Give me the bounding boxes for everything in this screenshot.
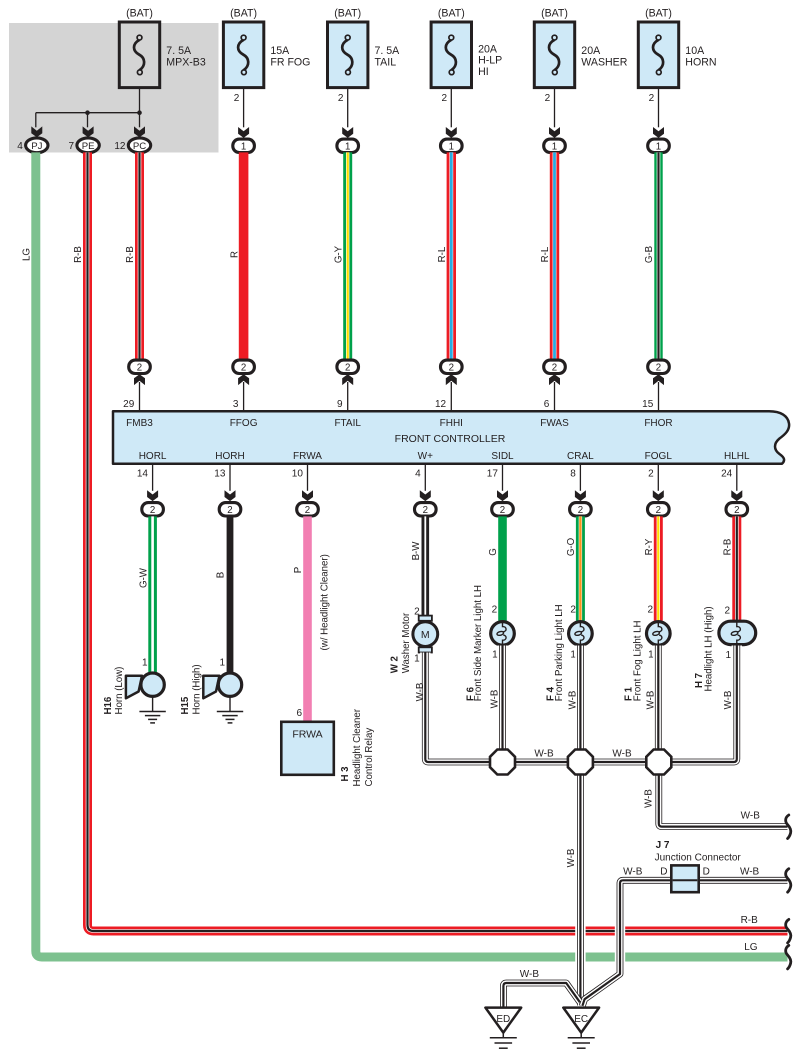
connector arrow	[446, 127, 457, 138]
connector arrow	[420, 490, 431, 501]
label H15 Horn (High)	[180, 664, 202, 714]
connector pin 1	[648, 139, 670, 152]
connector pin 2	[233, 360, 255, 373]
svg-text:(w/ Headlight Cleaner): (w/ Headlight Cleaner)	[320, 554, 331, 650]
svg-text:G-W: G-W	[138, 567, 149, 588]
wire W-B from junction 3 to right	[659, 774, 788, 826]
svg-text:(BAT): (BAT)	[334, 7, 361, 19]
label B-W	[411, 541, 422, 561]
label W-B	[534, 749, 554, 760]
svg-text:R-B: R-B	[125, 246, 136, 263]
svg-text:7. 5A: 7. 5A	[375, 45, 401, 57]
connector pin 2	[570, 503, 592, 516]
svg-text:PC: PC	[133, 141, 146, 152]
svg-text:2: 2	[648, 469, 654, 480]
lamp F6 Front Side Marker Light LH	[491, 622, 515, 646]
wire: controller pin 4 stem	[415, 464, 425, 491]
svg-text:4: 4	[415, 469, 421, 480]
svg-text:2: 2	[649, 93, 655, 104]
connector PJ	[17, 138, 48, 153]
svg-text:Washer Motor: Washer Motor	[401, 612, 412, 673]
svg-text:2: 2	[338, 93, 344, 104]
label W-B	[740, 867, 760, 878]
junction dot at PE branch	[85, 110, 90, 115]
label H3	[340, 708, 375, 786]
label R-B	[125, 246, 136, 263]
svg-text:1: 1	[219, 657, 225, 668]
label W2 Washer Motor	[389, 612, 412, 673]
connector pin 2	[648, 503, 670, 516]
fuse 7.5A MPX-B3	[119, 7, 206, 87]
svg-text:TAIL: TAIL	[375, 56, 397, 68]
label LG	[22, 248, 33, 261]
svg-text:R-B: R-B	[741, 915, 759, 926]
wire W-B from J7 to ground EC	[582, 880, 671, 1006]
svg-text:2: 2	[150, 505, 155, 516]
svg-text:24: 24	[721, 469, 733, 480]
connector pin 2	[544, 360, 566, 373]
pin label 2	[647, 605, 653, 616]
connector arrow	[302, 490, 313, 501]
wire: junction block internal bus	[36, 88, 140, 128]
svg-text:FRONT CONTROLLER: FRONT CONTROLLER	[395, 433, 506, 445]
svg-text:FMB3: FMB3	[126, 418, 153, 429]
svg-text:W-B: W-B	[520, 969, 540, 980]
svg-text:W-B: W-B	[415, 683, 426, 702]
label W-B	[723, 691, 734, 710]
svg-text:R-Y: R-Y	[644, 538, 655, 555]
wire: fuse output	[234, 88, 244, 128]
ground ED	[485, 1008, 521, 1049]
svg-text:R-B: R-B	[73, 246, 84, 263]
wire W-B from washer motor to junction	[425, 653, 490, 763]
svg-text:R-L: R-L	[540, 246, 551, 262]
svg-text:P: P	[293, 567, 304, 573]
label G-O	[566, 537, 577, 556]
wire R-B from HLHL to H7	[732, 516, 741, 620]
connector pin 2	[142, 503, 164, 516]
wire W-B from junction 2 to ground EC	[577, 774, 584, 1005]
wire R-B from PE to bottom right	[88, 152, 788, 931]
wire: controller pin 9 stem	[337, 382, 348, 412]
svg-text:Front Side Marker Light LH: Front Side Marker Light LH	[473, 585, 484, 701]
connector arrow	[83, 126, 94, 137]
svg-text:2: 2	[345, 362, 350, 373]
wire R-L from WASHER fuse to FWAS	[550, 152, 559, 359]
svg-text:8: 8	[570, 469, 576, 480]
connector arrow	[497, 490, 508, 501]
svg-text:HI: HI	[478, 66, 489, 78]
label H16 Horn (Low)	[103, 667, 125, 715]
svg-text:W-B: W-B	[645, 691, 656, 710]
pin label D	[703, 867, 710, 878]
svg-text:2: 2	[656, 505, 661, 516]
svg-text:17: 17	[487, 469, 499, 480]
svg-text:G-B: G-B	[644, 246, 655, 263]
svg-text:Horn (High): Horn (High)	[192, 664, 203, 714]
svg-text:Front Fog Light LH: Front Fog Light LH	[632, 621, 643, 702]
pin label 1	[219, 657, 225, 668]
pin label 6	[296, 708, 302, 719]
svg-text:7: 7	[69, 141, 75, 152]
label G	[488, 548, 499, 556]
junction node 2	[568, 750, 593, 775]
svg-text:ED: ED	[496, 1014, 510, 1025]
connector arrow	[342, 127, 353, 138]
svg-text:H-LP: H-LP	[478, 55, 502, 67]
wire P from FRWA to relay H3	[303, 516, 312, 722]
svg-text:2: 2	[656, 362, 661, 373]
wire R-Y from FOGL to F1	[654, 516, 663, 620]
connector arrow	[549, 127, 560, 138]
break R-B continuation	[786, 919, 791, 943]
wire: fuse output	[545, 88, 555, 128]
wire W-B between junctions 2-3	[593, 759, 647, 766]
wire B from HORH to horn H15	[227, 516, 234, 672]
svg-text:13: 13	[214, 469, 226, 480]
label R-B	[723, 539, 734, 556]
svg-text:FWAS: FWAS	[540, 418, 569, 429]
connector arrow	[238, 374, 249, 385]
label R-L	[540, 246, 551, 262]
wire G from SIDL to F6	[498, 516, 507, 620]
connector pin 2	[219, 503, 241, 516]
svg-text:W+: W+	[418, 451, 433, 462]
label B	[216, 572, 227, 578]
svg-text:Headlight LH (High): Headlight LH (High)	[704, 606, 715, 691]
svg-text:10A: 10A	[685, 45, 705, 57]
svg-text:1: 1	[726, 650, 732, 661]
svg-text:W-B: W-B	[623, 867, 643, 878]
connector arrow	[575, 490, 586, 501]
svg-text:W-B: W-B	[612, 749, 632, 760]
wire W-B from F1 to junction	[655, 646, 662, 751]
svg-text:H 3: H 3	[340, 766, 351, 782]
FRONT CONTROLLER	[113, 411, 789, 463]
svg-text:2: 2	[492, 605, 498, 616]
svg-text:(BAT): (BAT)	[645, 7, 672, 19]
svg-text:(BAT): (BAT)	[230, 7, 257, 19]
svg-text:14: 14	[137, 469, 149, 480]
svg-text:HORL: HORL	[139, 451, 167, 462]
junction node 3	[646, 750, 671, 775]
wire W-B from J7 to right	[699, 877, 788, 884]
svg-text:(BAT): (BAT)	[541, 7, 568, 19]
svg-text:2: 2	[449, 362, 454, 373]
connector pin 1	[233, 139, 255, 152]
svg-text:1: 1	[552, 141, 557, 152]
wire W-B from F6 to junction	[499, 646, 506, 751]
svg-text:R-B: R-B	[723, 539, 734, 556]
svg-text:7. 5A: 7. 5A	[166, 45, 192, 57]
label W-B	[490, 690, 501, 709]
wire LG from PJ to bottom right	[36, 152, 788, 957]
svg-text:LG: LG	[22, 248, 33, 261]
svg-text:Front Parking Light LH: Front Parking Light LH	[554, 604, 565, 701]
svg-text:MPX-B3: MPX-B3	[166, 56, 206, 68]
pin label 1	[492, 650, 498, 661]
svg-text:2: 2	[552, 362, 557, 373]
break W-B continuation	[786, 815, 791, 839]
svg-text:Headlight Cleaner: Headlight Cleaner	[352, 708, 363, 786]
connector arrow	[134, 126, 145, 137]
pin label 2	[414, 607, 420, 618]
wire: fuse output	[649, 88, 659, 128]
svg-text:B: B	[216, 572, 227, 578]
wire R-L from H-LP HI fuse to FHHI	[447, 152, 456, 359]
wire W-B branch to ground ED	[503, 983, 579, 1007]
label R-Y	[644, 538, 655, 555]
wire W-B from H7 to junction	[672, 646, 737, 763]
svg-text:Junction Connector: Junction Connector	[655, 853, 742, 864]
wire: controller pin 24 stem	[721, 464, 737, 491]
break W-B continuation	[786, 869, 791, 893]
wire G-Y from TAIL fuse to FTAIL	[343, 152, 352, 359]
svg-text:2: 2	[423, 505, 428, 516]
svg-text:2: 2	[647, 605, 653, 616]
svg-text:FHOR: FHOR	[644, 418, 672, 429]
fuse 15A FR FOG	[223, 7, 310, 87]
svg-text:LG: LG	[744, 942, 758, 953]
connector pin 2	[726, 503, 748, 516]
svg-text:PJ: PJ	[31, 141, 42, 152]
svg-text:HLHL: HLHL	[724, 451, 750, 462]
label W-B	[645, 691, 656, 710]
svg-text:Control Relay: Control Relay	[364, 728, 375, 787]
connector arrow	[549, 374, 560, 385]
label G-B	[644, 246, 655, 263]
svg-text:R: R	[229, 251, 240, 258]
svg-text:1: 1	[656, 141, 661, 152]
pin label D	[660, 867, 667, 878]
pin label 1	[414, 653, 420, 664]
svg-text:D: D	[703, 867, 710, 878]
svg-text:PE: PE	[82, 141, 95, 152]
pin label 2	[725, 606, 731, 617]
label (w/ Headlight Cleaner)	[320, 554, 331, 650]
svg-text:2: 2	[734, 505, 739, 516]
connector pin 2	[648, 360, 670, 373]
washer motor W2	[413, 616, 438, 653]
svg-text:FHHI: FHHI	[440, 418, 463, 429]
svg-text:W-B: W-B	[566, 849, 577, 868]
pin label 2	[492, 605, 498, 616]
svg-text:4: 4	[17, 141, 23, 152]
connector arrow	[238, 127, 249, 138]
svg-text:FRWA: FRWA	[292, 728, 322, 740]
label F1 Front Fog Light LH	[624, 621, 644, 702]
svg-text:W-B: W-B	[534, 749, 554, 760]
wire: controller pin 3 stem	[233, 382, 244, 412]
fuse 7.5A TAIL	[328, 7, 401, 87]
svg-text:W-B: W-B	[723, 691, 734, 710]
pin label 1	[570, 650, 576, 661]
svg-text:FFOG: FFOG	[230, 418, 258, 429]
wire G-B from HORN fuse to FHOR	[654, 152, 662, 359]
svg-text:W-B: W-B	[741, 811, 761, 822]
label G-Y	[333, 245, 344, 263]
junction connector J7	[671, 865, 698, 892]
wire: controller pin 13 stem	[214, 464, 230, 491]
svg-text:(BAT): (BAT)	[438, 7, 465, 19]
wire: controller pin 12 stem	[435, 382, 451, 412]
connector arrow	[653, 374, 664, 385]
svg-text:3: 3	[233, 399, 239, 410]
svg-text:EC: EC	[574, 1014, 588, 1025]
label LG	[744, 942, 758, 953]
connector pin 2	[129, 360, 151, 373]
horn H15 (High)	[203, 673, 241, 698]
label R-L	[437, 246, 448, 262]
lamp F1 Front Fog Light LH	[647, 622, 671, 646]
connector PE	[69, 138, 100, 153]
svg-text:WASHER: WASHER	[581, 56, 627, 68]
svg-text:12: 12	[435, 399, 447, 410]
wire B-W from W+ to washer motor	[421, 516, 429, 616]
wire G-W from HORL to horn H16	[148, 516, 157, 672]
svg-text:2: 2	[578, 505, 583, 516]
junction block (gray panel)	[9, 23, 219, 153]
label P	[293, 567, 304, 573]
svg-text:W-B: W-B	[644, 789, 655, 808]
svg-text:20A: 20A	[478, 43, 498, 55]
svg-text:CRAL: CRAL	[567, 451, 594, 462]
connector arrow	[446, 374, 457, 385]
label F4 Front Parking Light LH	[545, 604, 565, 701]
svg-text:H15: H15	[180, 696, 191, 714]
wire: controller pin 15 stem	[642, 382, 658, 412]
connector arrow	[342, 374, 353, 385]
wire: fuse output	[338, 88, 348, 128]
connector arrow	[225, 490, 236, 501]
label H7 Headlight LH (High)	[694, 606, 715, 691]
connector arrow	[134, 374, 145, 385]
connector arrow	[731, 490, 742, 501]
label W-B	[623, 867, 643, 878]
connector arrow	[147, 490, 158, 501]
horn H16 (Low)	[126, 673, 164, 698]
pin label 2	[570, 605, 576, 616]
wire: controller pin 8 stem	[570, 464, 580, 491]
connector pin 1	[544, 139, 566, 152]
svg-text:(BAT): (BAT)	[126, 7, 153, 19]
svg-text:M: M	[421, 629, 430, 641]
svg-text:15: 15	[642, 399, 654, 410]
svg-text:FTAIL: FTAIL	[334, 418, 361, 429]
wire G-O from CRAL to F4	[576, 516, 585, 620]
wire: controller pin 17 stem	[487, 464, 503, 491]
label R-B	[73, 246, 84, 263]
label W-B	[520, 969, 540, 980]
svg-text:2: 2	[441, 93, 447, 104]
svg-text:2: 2	[137, 362, 142, 373]
ground at H15	[217, 697, 243, 723]
svg-text:G: G	[488, 548, 499, 556]
svg-text:W-B: W-B	[740, 867, 760, 878]
svg-text:12: 12	[114, 141, 126, 152]
connector pin 2	[492, 503, 514, 516]
svg-text:G-O: G-O	[566, 537, 577, 556]
wire: controller pin 10 stem	[292, 464, 308, 491]
connector arrow	[653, 490, 664, 501]
svg-text:W 2: W 2	[389, 656, 400, 673]
connector pin 2	[441, 360, 463, 373]
svg-text:HORN: HORN	[685, 56, 716, 68]
svg-text:SIDL: SIDL	[491, 451, 514, 462]
pin label 1	[648, 650, 654, 661]
connector pin 2	[337, 360, 359, 373]
svg-text:10: 10	[292, 469, 304, 480]
label W-B	[741, 811, 761, 822]
svg-text:1: 1	[345, 141, 350, 152]
pin label 1	[726, 650, 732, 661]
svg-text:2: 2	[500, 505, 505, 516]
svg-text:2: 2	[570, 605, 576, 616]
label G-W	[138, 567, 149, 588]
pin label 1	[142, 657, 148, 668]
svg-text:FRWA: FRWA	[293, 451, 322, 462]
wire: controller pin 6 stem	[544, 382, 555, 412]
svg-text:20A: 20A	[581, 45, 601, 57]
connector arrow	[31, 126, 42, 137]
svg-text:Horn (Low): Horn (Low)	[114, 667, 125, 715]
connector pin 1	[441, 139, 463, 152]
label J7	[655, 840, 742, 863]
svg-text:FOGL: FOGL	[645, 451, 673, 462]
svg-text:1: 1	[449, 141, 454, 152]
svg-text:15A: 15A	[270, 45, 290, 57]
svg-text:W-B: W-B	[567, 691, 578, 710]
svg-text:2: 2	[227, 505, 232, 516]
headlight H7 LH (High)	[719, 621, 756, 645]
svg-text:2: 2	[545, 93, 551, 104]
wire R-B from PC to FMB3	[135, 152, 144, 359]
svg-text:2: 2	[725, 606, 731, 617]
svg-text:6: 6	[544, 399, 550, 410]
break LG continuation	[786, 945, 791, 969]
svg-text:1: 1	[241, 141, 246, 152]
svg-text:6: 6	[296, 708, 302, 719]
svg-text:29: 29	[123, 399, 135, 410]
svg-text:1: 1	[142, 657, 148, 668]
fuse 20A H-LP HI	[431, 7, 502, 87]
svg-text:G-Y: G-Y	[333, 245, 344, 263]
W-B wire network	[425, 646, 787, 1008]
label W-B	[566, 849, 577, 868]
wire: controller pin 2 stem	[648, 464, 658, 491]
svg-text:D: D	[660, 867, 667, 878]
connector pin 2	[415, 503, 437, 516]
svg-text:R-L: R-L	[437, 246, 448, 262]
ground at H16	[139, 697, 165, 723]
wire R from FR FOG fuse to FFOG	[239, 152, 249, 359]
svg-text:9: 9	[337, 399, 343, 410]
svg-text:FR FOG: FR FOG	[270, 56, 310, 68]
relay H3 Headlight Cleaner Control Relay	[281, 722, 334, 775]
label W-B	[567, 691, 578, 710]
wire: fuse output	[441, 88, 451, 128]
junction node 1	[490, 750, 515, 775]
wire W-B from F4 to junction	[577, 646, 584, 751]
svg-text:W-B: W-B	[490, 690, 501, 709]
label R-B	[741, 915, 759, 926]
svg-text:2: 2	[241, 362, 246, 373]
svg-text:2: 2	[305, 505, 310, 516]
label W-B	[644, 789, 655, 808]
svg-text:1: 1	[414, 653, 420, 664]
svg-text:1: 1	[492, 650, 498, 661]
fuse 10A HORN	[638, 7, 716, 87]
